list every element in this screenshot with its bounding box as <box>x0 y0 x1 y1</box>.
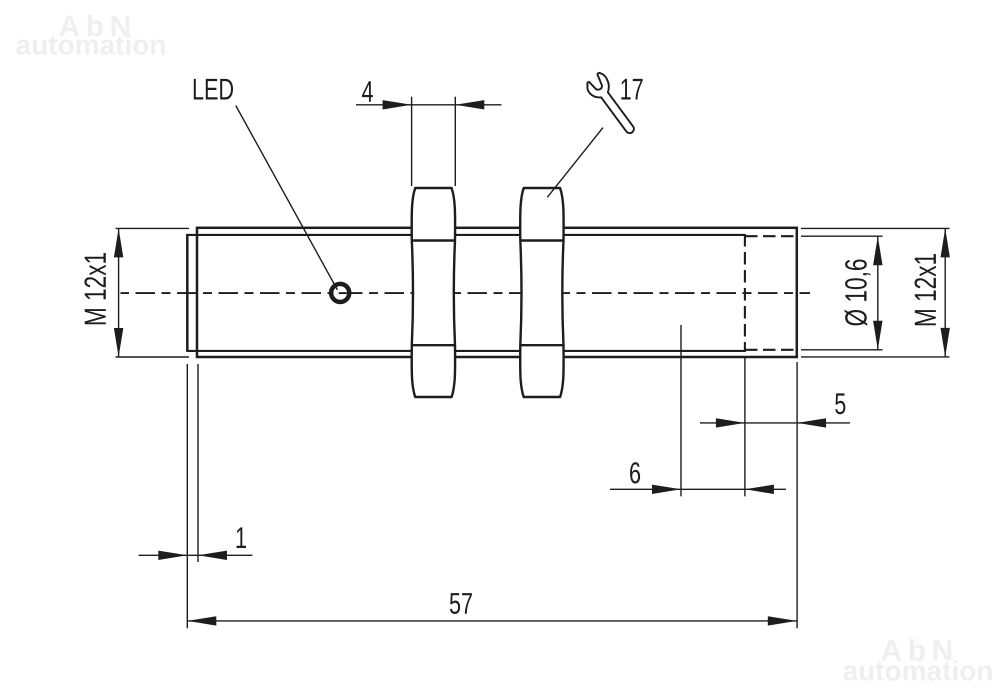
sensor body outline <box>197 228 797 357</box>
left M12x1 dimension line <box>118 228 120 357</box>
label M 12x1 right <box>915 254 936 325</box>
sensor body thread root line top <box>187 234 745 236</box>
label 57 <box>450 593 472 614</box>
hex nut 1 <box>412 188 455 397</box>
dimension 4 extension line right <box>454 97 456 186</box>
label 4 <box>362 81 373 102</box>
LED leader line <box>236 106 338 290</box>
sensor body thread root line bottom <box>187 350 745 352</box>
wrench icon <box>583 71 641 139</box>
extension line left face below body <box>186 364 188 628</box>
right bore diameter extension line bottom <box>801 349 883 351</box>
extension line right face below body <box>796 362 798 628</box>
label 6 <box>630 462 640 483</box>
watermark top-left "AbN automation" <box>16 15 164 55</box>
right M12x1 dimension line <box>944 228 946 357</box>
hidden bore start vertical dashed <box>744 234 746 352</box>
label 5 <box>835 393 845 414</box>
extension line thread start below body <box>197 364 199 562</box>
right bore diameter extension line top <box>801 235 883 237</box>
wrench leader line <box>547 128 603 198</box>
left M12x1 extension line bottom <box>116 356 190 358</box>
dimension 1 line <box>139 554 253 556</box>
right M12x1 extension line top <box>801 227 950 229</box>
hidden bore line bottom <box>745 349 797 351</box>
dimension 57 line <box>187 620 797 622</box>
watermark bottom-right "AbN automation" <box>843 639 991 681</box>
right M12x1 extension line bottom <box>801 356 950 358</box>
centerline dash inside LED circle <box>339 292 347 294</box>
hex nut 2 <box>520 188 563 397</box>
hidden bore line top <box>745 235 797 237</box>
LED label <box>194 79 233 100</box>
centerline axis <box>121 292 811 294</box>
dimension 6 line <box>610 488 786 490</box>
extension line bore start below body <box>744 357 746 496</box>
left M12x1 extension line top <box>116 227 190 229</box>
extension line sensing reference inside body <box>680 325 682 496</box>
label O 10,6 diameter <box>845 260 871 326</box>
label 17 <box>621 79 642 100</box>
LED indicator circle <box>331 284 349 302</box>
label M 12x1 left <box>84 253 105 324</box>
sensor body left face <box>186 234 189 352</box>
dimension 4 extension line left <box>411 97 413 186</box>
right bore diameter dimension line <box>877 236 879 350</box>
dimension 5 line <box>700 422 850 424</box>
dimension 4 line <box>356 104 502 106</box>
label 1 <box>237 527 246 548</box>
